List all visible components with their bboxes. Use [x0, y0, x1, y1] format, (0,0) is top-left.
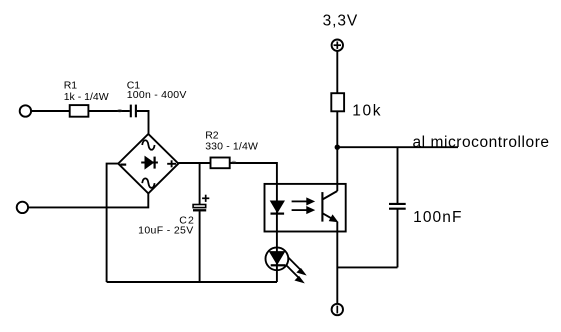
wire endpoint mark (after R2) [231, 161, 236, 164]
wire P1 to R1 [31, 110, 69, 112]
resistor R1 [70, 105, 89, 117]
capacitor C2 plates [193, 205, 206, 208]
indicator LED D1 triangle [270, 252, 285, 265]
bridge rectifier B1 (diamond) [118, 134, 178, 194]
svg-text:10k: 10k [352, 103, 382, 120]
optocoupler LED triangle [271, 201, 285, 212]
svg-text:100nF: 100nF [413, 209, 462, 226]
bridge minus mark [120, 164, 126, 166]
negative bottom rail [107, 281, 277, 283]
capacitor C3 100nF lead top [397, 147, 399, 204]
optocoupler LED cathode wire down through D1 to rail [276, 201, 278, 282]
wire bridge left corner to negative rail [107, 164, 119, 282]
phototransistor emitter diagonal [322, 213, 334, 220]
svg-text:al microcontrollore: al microcontrollore [413, 134, 550, 151]
svg-text:10uF - 25V: 10uF - 25V [138, 225, 193, 237]
svg-text:1k - 1/4W: 1k - 1/4W [64, 91, 109, 103]
wire node to al microcontrollore [337, 146, 458, 148]
optocoupler LED cathode bar [271, 213, 285, 215]
indicator LED D1 circle [266, 247, 289, 270]
resistor R2 [211, 158, 230, 169]
bridge internal diode [141, 162, 158, 164]
bridge plus mark [167, 163, 176, 165]
wire power to 10k resistor [336, 51, 338, 93]
ground symbol [332, 304, 343, 315]
capacitor C2 lead top [199, 163, 201, 205]
node junction dot [335, 145, 340, 150]
capacitor C3 lead bottom [397, 209, 399, 268]
phototransistor emitter arrowhead [330, 215, 338, 221]
capacitor C2 plus mark [202, 195, 209, 202]
terminal P2 (lower input) [17, 202, 28, 213]
wire bridge right corner to R2 [178, 162, 210, 164]
capacitor C1 [131, 105, 136, 118]
optocoupler U1 body [265, 184, 346, 232]
terminal P1 (upper input) [20, 105, 31, 116]
wire C1 to bridge top [137, 111, 149, 134]
capacitor C2 lead bottom [199, 211, 201, 282]
phototransistor collector diagonal [322, 191, 337, 200]
svg-text:3,3V: 3,3V [323, 12, 359, 29]
optocoupler light arrow 1 [292, 198, 314, 205]
power symbol +3.3V [332, 40, 343, 51]
wire 10k to collector (through node) [336, 111, 338, 191]
capacitor C3 plates [389, 203, 406, 205]
indicator LED light arrow 1 [288, 258, 305, 275]
svg-text:R1: R1 [64, 79, 78, 91]
phototransistor base bar [321, 192, 323, 222]
indicator LED D1 cathode bar [271, 264, 286, 266]
wire R1 to C1 [88, 110, 129, 112]
optocoupler light arrow 2 [292, 207, 314, 214]
wire emitter to 100nF bottom [337, 266, 397, 268]
resistor R3 10k [331, 93, 344, 111]
svg-text:330 - 1/4W: 330 - 1/4W [205, 141, 258, 153]
bridge AC tilde bottom [142, 178, 154, 187]
wire P2 to bridge bottom corner [28, 193, 148, 207]
indicator LED light arrow 2 [286, 265, 303, 282]
wire R2 to optocoupler LED [230, 163, 277, 201]
bridge AC tilde top [142, 140, 154, 149]
wire endpoint mark (between R1 and C1) [117, 109, 122, 112]
svg-text:100n - 400V: 100n - 400V [127, 89, 187, 101]
wire emitter down to ground [336, 222, 338, 304]
